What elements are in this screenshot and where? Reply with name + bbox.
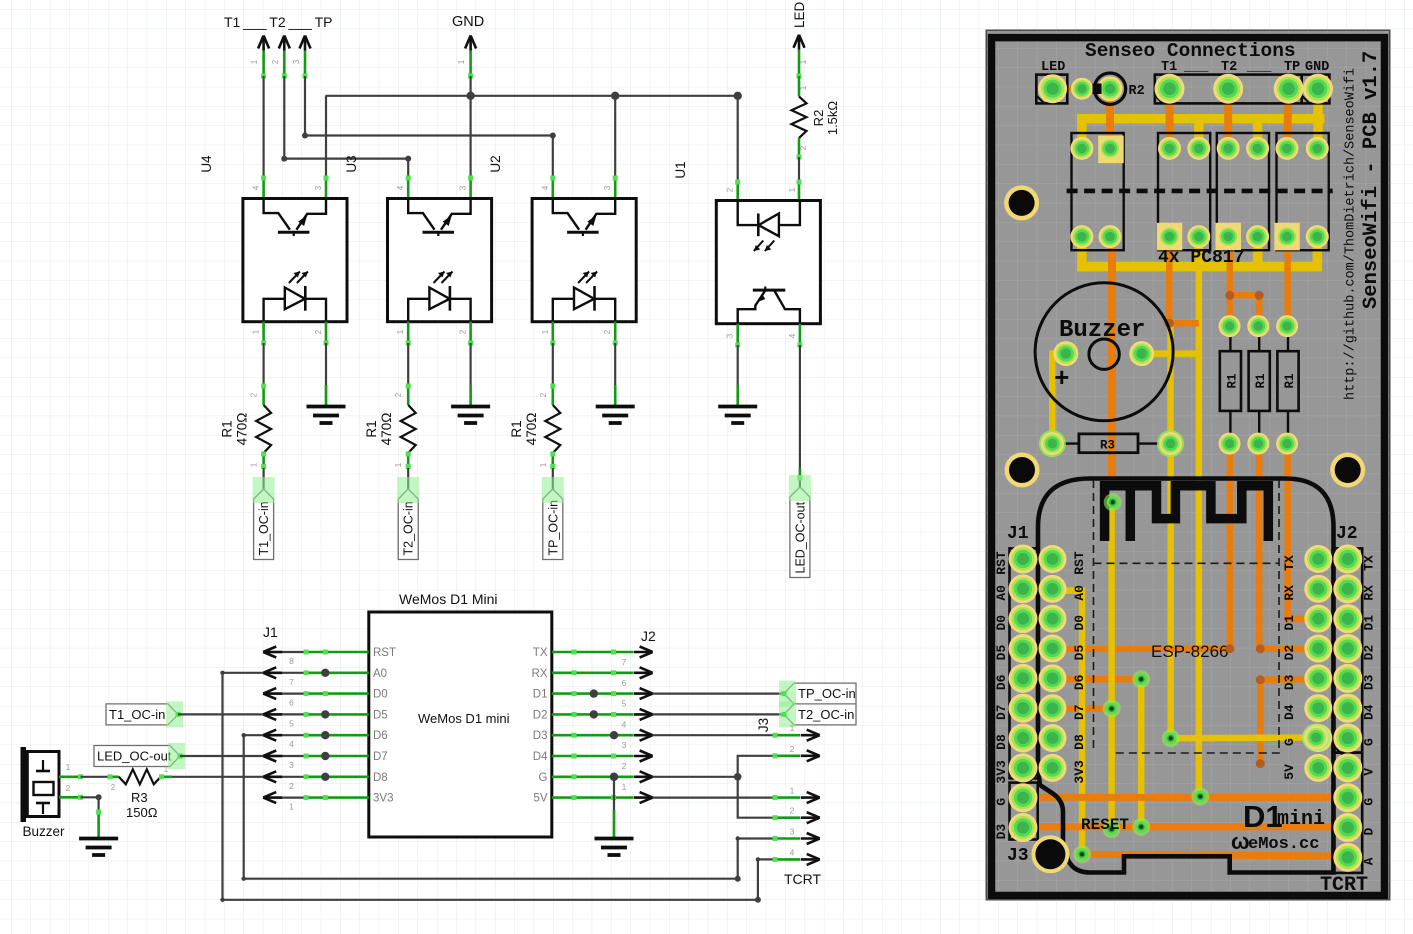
wire J2 pin 7 to TX — [552, 651, 633, 654]
svg-text:470Ω: 470Ω — [524, 413, 539, 446]
junction GND bus / U3.3 — [466, 92, 474, 100]
wire J1 pin 4 to D6 — [263, 734, 306, 736]
node D2 (J2 side) — [634, 709, 653, 720]
wire orange T1 branch via — [1170, 320, 1199, 327]
wire J1 pin 1 to 3V3 — [263, 796, 306, 798]
svg-text:J2: J2 — [641, 628, 656, 644]
svg-text:4: 4 — [790, 847, 795, 857]
wire J2 pin 6 to RX — [552, 671, 633, 674]
wire orange ESP-8266 row — [1053, 646, 1230, 653]
svg-text:U1: U1 — [673, 161, 688, 178]
pads header — [1155, 74, 1185, 104]
svg-text:J3: J3 — [756, 718, 771, 732]
svg-text:T1 ___ T2 ___ TP: T1 ___ T2 ___ TP — [224, 14, 333, 30]
ground — [718, 407, 757, 424]
wire orange R1c down to D1 — [1288, 444, 1319, 619]
wire 5V to TCRT pin1 — [653, 796, 775, 798]
svg-text:+: + — [1054, 364, 1070, 394]
junction dots on J2 pins D3 G — [610, 731, 618, 739]
wire G vertical to J3 pin2 and TCRT pin2 — [738, 756, 775, 818]
wire GND down to U3 pin3 — [470, 76, 472, 178]
svg-text:3: 3 — [622, 740, 627, 750]
svg-text:1: 1 — [289, 802, 294, 812]
wire yellow top bus — [1077, 114, 1087, 148]
svg-text:G: G — [1282, 738, 1297, 746]
U4 infrared LED — [264, 299, 285, 322]
node RX (J2 side) — [634, 667, 653, 678]
header T1 T2 TP GND footprint — [1155, 75, 1330, 104]
J2 pads inner column — [1304, 545, 1332, 573]
svg-text:2: 2 — [622, 761, 627, 771]
wire D3 to J3 pin1 — [653, 734, 775, 736]
svg-text:2: 2 — [459, 329, 468, 334]
svg-text:4: 4 — [252, 185, 261, 190]
svg-text:D0: D0 — [373, 689, 388, 701]
svg-text:___: ___ — [1183, 60, 1209, 75]
wire orange D7 row — [1053, 705, 1112, 712]
node T2_OC-in (global label right) — [784, 704, 856, 725]
svg-text:U3: U3 — [344, 155, 359, 172]
buzzer pin 2 — [59, 796, 81, 799]
J1 pads outer column — [1009, 545, 1038, 574]
LED footprint — [1036, 75, 1067, 104]
U3 infrared LED — [408, 299, 429, 322]
svg-text:D2: D2 — [1362, 645, 1377, 661]
op-amp U4 optocoupler PC817 body — [243, 199, 347, 322]
wire opto pin1 down — [551, 322, 554, 344]
svg-text:RESET: RESET — [1081, 816, 1129, 834]
op-amp U2 optocoupler PC817 body — [532, 199, 636, 322]
svg-text:D7: D7 — [1072, 704, 1087, 720]
wire yellow buzzer right to G via — [1142, 350, 1199, 357]
svg-text:3: 3 — [292, 59, 301, 64]
svg-text:R1: R1 — [364, 420, 379, 437]
svg-text:LED_OC-out: LED_OC-out — [793, 501, 807, 573]
svg-text:3: 3 — [603, 185, 612, 190]
node LED_OC-out (global label) — [790, 487, 810, 578]
node D8 (J1 side) — [263, 771, 282, 782]
wire T1 to U4 pin4 — [263, 76, 265, 178]
svg-text:GND: GND — [452, 14, 484, 30]
svg-text:2: 2 — [726, 187, 735, 192]
wire orange G row long — [1023, 794, 1348, 801]
svg-text:3: 3 — [726, 333, 735, 338]
svg-text:Buzzer: Buzzer — [23, 824, 66, 839]
svg-text:A0: A0 — [994, 585, 1009, 601]
node D4 (J2 side) — [634, 751, 653, 762]
svg-text:470Ω: 470Ω — [235, 413, 250, 446]
svg-text:R2: R2 — [811, 110, 826, 127]
wire buzzer pin1 to R3 — [81, 776, 119, 778]
svg-text:1: 1 — [799, 85, 808, 90]
wire orange T1 to optoB — [1166, 89, 1174, 149]
opto pads bottom row — [1070, 225, 1093, 248]
green vias — [1104, 493, 1122, 511]
svg-text:1.5kΩ: 1.5kΩ — [825, 101, 840, 136]
op-amp U1 optocoupler PC817 body (LED input right) — [716, 201, 820, 324]
svg-text:2: 2 — [271, 59, 280, 64]
wire T2 to U3 pin4 — [284, 76, 408, 178]
svg-text:D4: D4 — [1282, 704, 1297, 720]
svg-text:TX: TX — [1282, 555, 1297, 571]
svg-text:1: 1 — [799, 59, 808, 64]
svg-text:1: 1 — [541, 329, 550, 334]
wire buzzer pin2 to ground — [81, 797, 99, 837]
svg-text:A: A — [1362, 857, 1377, 865]
wire opto pin1 down — [262, 322, 265, 344]
svg-text:1: 1 — [250, 462, 259, 467]
wire J2 pin 5 to D1 — [552, 692, 633, 695]
U2 phototransistor — [553, 199, 579, 230]
wire yellow G via row — [1171, 734, 1317, 741]
svg-text:RST: RST — [994, 551, 1009, 575]
svg-text:Buzzer: Buzzer — [1059, 317, 1145, 344]
svg-text:2: 2 — [603, 329, 612, 334]
wire J2 pin 1 to G — [552, 775, 633, 778]
wire opto pin1 down — [407, 322, 410, 344]
node D0 (J1 side) — [263, 688, 282, 699]
wire orange via-via link — [1230, 292, 1259, 299]
svg-text:4: 4 — [396, 185, 405, 190]
R1 pads — [1219, 315, 1241, 337]
svg-text:G: G — [539, 772, 548, 784]
node D1 (J2 side) — [634, 688, 653, 699]
svg-text:RST: RST — [1072, 551, 1087, 575]
wire J1 pin 3 to D7 — [263, 755, 306, 757]
svg-text:D2: D2 — [1282, 645, 1297, 661]
mounting hole top left — [1004, 185, 1039, 220]
svg-text:___: ___ — [1246, 60, 1272, 75]
svg-text:A0: A0 — [1072, 585, 1087, 601]
svg-text:D4: D4 — [533, 751, 548, 763]
svg-text:1: 1 — [66, 763, 71, 772]
wire orange optoB pin1 down to via — [1166, 237, 1173, 324]
svg-text:2: 2 — [314, 329, 323, 334]
connector J3 footprint box — [1010, 783, 1038, 840]
svg-text:TP_OC-in: TP_OC-in — [546, 500, 560, 556]
buzzer pads — [1053, 341, 1078, 366]
resistor R1 470 — [256, 405, 271, 453]
D1 mini footprint outline — [1038, 479, 1334, 873]
node 5V (J2 side) — [634, 792, 653, 803]
svg-text:TP_OC-in: TP_OC-in — [798, 686, 856, 701]
wire orange D6 row — [1053, 676, 1142, 683]
svg-text:RX: RX — [1362, 585, 1377, 601]
svg-text:J2: J2 — [1336, 524, 1358, 544]
svg-text:D7: D7 — [373, 751, 388, 763]
svg-text:1: 1 — [788, 187, 797, 192]
svg-text:LED_OC-out: LED_OC-out — [97, 749, 172, 764]
svg-text:SenseoWifi - PCB v1.7: SenseoWifi - PCB v1.7 — [1360, 51, 1383, 309]
svg-text:1: 1 — [457, 59, 466, 64]
svg-text:D: D — [1362, 827, 1377, 835]
junction GND bus / U2.3 — [611, 92, 619, 100]
svg-text:D6: D6 — [1072, 674, 1087, 690]
svg-text:D6: D6 — [373, 730, 388, 742]
svg-text:LED: LED — [792, 1, 807, 28]
svg-text:ω: ω — [1231, 829, 1250, 854]
svg-text:5V: 5V — [1282, 764, 1297, 780]
node G (J2 side) — [634, 771, 653, 782]
svg-text:T1: T1 — [1161, 60, 1177, 75]
wire orange optoC pin1 via R1a — [1227, 237, 1234, 327]
svg-text:J1: J1 — [263, 624, 278, 640]
wire G row to J3/TCRT — [653, 776, 738, 778]
ground — [79, 839, 118, 856]
svg-text:ESP-8266: ESP-8266 — [1151, 642, 1229, 661]
buzzer BZ1 — [21, 747, 27, 822]
buzzer pin 1 — [59, 775, 81, 778]
wire R2 to U1 pin1 — [798, 157, 800, 182]
wire U1 pin4 down to LED_OC-out — [799, 324, 802, 345]
wire orange R1b down to D2 — [1256, 444, 1263, 649]
R3 resistor — [1052, 442, 1079, 444]
wire U1 pin3 down to ground — [736, 324, 739, 345]
wire D6 to TCRT pin3 — [244, 735, 775, 879]
svg-text:WeMos D1 mini: WeMos D1 mini — [418, 711, 510, 726]
svg-text:R1: R1 — [1225, 373, 1239, 388]
svg-text:T2_OC-in: T2_OC-in — [798, 707, 854, 722]
orange vias bottom — [1225, 644, 1234, 653]
resistor R1 470 — [545, 405, 560, 453]
wire D2 to T2_OC-in — [653, 713, 784, 715]
node D3 (J2 side) — [634, 730, 653, 741]
yellow square pads — [1098, 136, 1124, 164]
svg-text:150Ω: 150Ω — [126, 805, 158, 820]
wire GND bus horizontal — [326, 95, 738, 97]
svg-text:3: 3 — [790, 827, 795, 837]
node T1_OC-in (global label) — [254, 489, 274, 560]
node A0 (J1 side) — [263, 667, 282, 678]
svg-text:8: 8 — [289, 656, 294, 666]
svg-text:TCRT: TCRT — [1320, 874, 1368, 897]
svg-text:U2: U2 — [488, 155, 503, 172]
wire J1 pin 6 to D0 — [263, 692, 306, 694]
J2 pads outer column — [1333, 545, 1362, 574]
U3 phototransistor — [408, 199, 434, 230]
svg-text:G: G — [1362, 738, 1377, 746]
svg-text:RST: RST — [373, 647, 396, 659]
wire orange TP to optoD — [1287, 89, 1289, 149]
R1 resistors — [1229, 326, 1231, 351]
svg-text:TX: TX — [533, 647, 548, 659]
svg-text:eMos.cc: eMos.cc — [1248, 835, 1319, 854]
svg-text:D3: D3 — [533, 730, 548, 742]
svg-text:1: 1 — [790, 786, 795, 796]
buzzer circle — [1035, 283, 1173, 421]
svg-text:D1: D1 — [1362, 615, 1377, 631]
wire D1 to TP_OC-in — [653, 692, 784, 694]
svg-text:1: 1 — [622, 782, 627, 792]
wire opto pin2 down to ground — [614, 322, 617, 344]
wire orange D3 branch — [1260, 676, 1318, 683]
pads LED R2 row — [1038, 74, 1067, 103]
svg-text:J3: J3 — [1007, 846, 1029, 866]
optocoupler footprints — [1072, 133, 1124, 250]
wire orange T2 to optoC — [1224, 89, 1232, 149]
svg-text:7: 7 — [622, 657, 627, 667]
svg-text:4x PC817: 4x PC817 — [1158, 248, 1244, 268]
wire orange via to R1b — [1256, 295, 1263, 326]
svg-text:D3: D3 — [1282, 674, 1297, 690]
svg-text:D5: D5 — [994, 645, 1009, 661]
svg-text:1: 1 — [394, 462, 403, 467]
connector J2 footprint box — [1333, 548, 1363, 752]
node 3V3 (J1 side) — [263, 792, 282, 803]
node T2 (hierarchical pin, top) — [279, 36, 290, 51]
svg-text:2: 2 — [799, 145, 808, 150]
svg-text:R1: R1 — [509, 420, 524, 437]
ground — [596, 407, 635, 424]
wire yellow D7 via down — [1108, 502, 1115, 829]
svg-text:3: 3 — [459, 185, 468, 190]
wire J1 pin 7 to A0 — [263, 672, 306, 674]
svg-text:D0: D0 — [1072, 615, 1087, 631]
svg-text:J1: J1 — [1007, 524, 1029, 544]
svg-text:mini: mini — [1277, 808, 1325, 831]
svg-text:WeMos D1 Mini: WeMos D1 Mini — [399, 591, 498, 607]
wire orange optoA pin2 down to via — [1108, 237, 1116, 479]
svg-text:D4: D4 — [1362, 704, 1377, 720]
svg-text:D5: D5 — [1072, 645, 1087, 661]
svg-text:U4: U4 — [199, 155, 214, 173]
svg-text:TX: TX — [1362, 555, 1377, 571]
antenna meander — [1105, 486, 1269, 541]
junction dots on J1 pins — [321, 669, 329, 677]
svg-text:D5: D5 — [373, 709, 388, 721]
opto pads top row — [1070, 137, 1093, 160]
svg-text:5: 5 — [289, 718, 294, 728]
wire GND bus to U1 pin2 — [737, 96, 739, 182]
svg-text:TCRT: TCRT — [784, 871, 822, 887]
wire T1_OC-in to D5 — [178, 713, 263, 715]
wire J2 pin 4 to D2 — [552, 713, 633, 716]
svg-text:GND: GND — [1305, 60, 1329, 75]
op-amp U3 optocoupler PC817 body — [388, 199, 492, 322]
vias top — [1225, 291, 1234, 300]
wire TP to U2 pin4 — [305, 76, 553, 178]
PCB board outline frame — [992, 38, 1385, 896]
svg-text:5: 5 — [622, 699, 627, 709]
connector TCRT pins — [775, 796, 800, 799]
node TP_OC-in (global label right) — [784, 683, 856, 704]
svg-text:D1: D1 — [1282, 615, 1297, 631]
svg-text:4: 4 — [788, 333, 797, 338]
node D6 (J1 side) — [263, 730, 282, 741]
wire J2 pin 3 to D3 — [552, 734, 633, 737]
svg-text:D0: D0 — [994, 615, 1009, 631]
svg-text:1: 1 — [250, 59, 259, 64]
PCB layout image (SenseoWifi PCB v1.7) — [986, 30, 1391, 901]
ground — [307, 407, 346, 424]
resistor R1 470 — [401, 405, 416, 453]
svg-text:2: 2 — [111, 783, 116, 792]
ESP module dashed outline — [1094, 480, 1281, 753]
svg-text:4: 4 — [541, 185, 550, 190]
svg-text:R1: R1 — [1254, 373, 1268, 388]
svg-text:D8: D8 — [1072, 734, 1087, 750]
node TX (J2 side) — [634, 647, 653, 658]
svg-text:D8: D8 — [373, 772, 388, 784]
svg-text:3V3: 3V3 — [1072, 760, 1087, 784]
svg-text:2: 2 — [539, 392, 548, 397]
svg-text:470Ω: 470Ω — [379, 413, 394, 446]
svg-text:1: 1 — [252, 329, 261, 334]
svg-text:D8: D8 — [994, 734, 1009, 750]
wire orange R1a down to ESP via — [1227, 444, 1234, 649]
node T2_OC-in (global label) — [398, 489, 418, 560]
wire J1 pin 5 to D5 — [263, 713, 306, 715]
wire opto pin2 down to ground — [469, 322, 472, 344]
svg-text:2: 2 — [790, 744, 795, 754]
wire yellow buzzer chain — [1052, 354, 1066, 444]
svg-text:http://github.com/ThomDietrich: http://github.com/ThomDietrich/SenseoWif… — [1344, 68, 1359, 400]
svg-text:R2: R2 — [1129, 84, 1145, 99]
svg-text:D7: D7 — [994, 704, 1009, 720]
svg-text:1: 1 — [790, 723, 795, 733]
wire U4 pin3 to GND bus — [325, 96, 327, 178]
node TP_OC-in (global label) — [543, 489, 563, 560]
wire J2 pin to 5V — [552, 796, 633, 799]
resistor R2 1.5k — [798, 76, 801, 96]
wire J2 pin 2 to D4 — [552, 755, 633, 758]
svg-text:RX: RX — [1282, 585, 1297, 601]
svg-text:T2: T2 — [1221, 60, 1237, 75]
wire orange R2 to optoA — [1106, 89, 1114, 149]
U1 incoming light arrows — [754, 241, 764, 252]
dashed silkscreen line — [1067, 189, 1333, 194]
svg-text:D3: D3 — [994, 824, 1009, 840]
U4 phototransistor — [264, 199, 290, 230]
J3 mounting hole — [1031, 835, 1069, 873]
svg-text:D2: D2 — [533, 709, 548, 721]
node RST (J1 side) — [263, 647, 282, 658]
highlighted G pad — [1302, 724, 1330, 752]
wire yellow bottom bus — [1077, 237, 1087, 272]
svg-text:4: 4 — [289, 739, 294, 749]
svg-text:R3: R3 — [1100, 439, 1115, 453]
mounting holes middle — [1005, 453, 1040, 488]
connector TCRT footprint box — [1333, 753, 1363, 873]
wire J1 pin 2 to D8 — [263, 776, 306, 778]
svg-text:T2_OC-in: T2_OC-in — [402, 501, 416, 555]
svg-text:1: 1 — [164, 765, 169, 774]
svg-text:TP: TP — [1284, 60, 1300, 75]
wire yellow optoC pin2 to bus2 — [1253, 237, 1263, 271]
wire orange D3 row long — [1023, 823, 1348, 830]
wire yellow D6 via down — [1138, 679, 1145, 827]
wire G to ground symbol — [613, 777, 615, 837]
svg-text:1: 1 — [539, 462, 548, 467]
svg-text:T1_OC-in: T1_OC-in — [257, 501, 271, 555]
svg-text:R3: R3 — [131, 790, 148, 805]
J1 pads inner column — [1039, 545, 1067, 573]
svg-text:V: V — [1362, 768, 1377, 776]
svg-text:A0: A0 — [373, 668, 387, 680]
U1 LED (top, pointing left) — [738, 201, 759, 226]
svg-text:3V3: 3V3 — [373, 793, 393, 805]
svg-text:R1: R1 — [220, 420, 235, 437]
svg-text:RX: RX — [532, 668, 548, 680]
wire opto pin2 down to ground — [325, 322, 328, 344]
connector J3 pins — [775, 734, 800, 737]
svg-text:LED: LED — [1041, 60, 1065, 75]
ground — [451, 407, 490, 424]
svg-text:G: G — [1362, 798, 1377, 806]
wire U2 pin3 to GND bus — [614, 96, 616, 178]
svg-text:6: 6 — [289, 698, 294, 708]
junction dots on J2 pins D1 D2 — [590, 689, 598, 697]
